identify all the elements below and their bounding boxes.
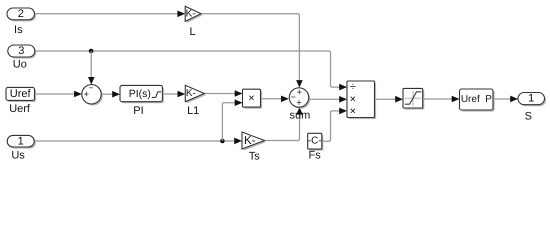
- Uref P block: [460, 89, 495, 112]
- svg-text:Fs: Fs: [308, 150, 321, 162]
- svg-text:÷: ÷: [350, 81, 356, 93]
- svg-text:K-: K-: [244, 135, 256, 147]
- svg-text:1: 1: [528, 93, 534, 105]
- svg-text:K-: K-: [186, 8, 196, 19]
- inport 3 (Uo): [8, 45, 37, 59]
- svg-text:L1: L1: [187, 105, 199, 117]
- svg-text:−: −: [291, 92, 296, 102]
- gain L: [185, 6, 202, 23]
- wire sum2 output to product middle input: [309, 96, 347, 103]
- svg-text:3: 3: [18, 45, 24, 57]
- svg-text:1: 1: [18, 135, 24, 147]
- wire gain L1 to multiply top input: [204, 90, 242, 97]
- inport 1 (Us): [7, 135, 36, 148]
- svg-text:2: 2: [18, 8, 24, 20]
- wire gain L output to sum2 top input: [201, 14, 303, 88]
- junction dot on Uo line: [89, 49, 94, 54]
- svg-text:-C-: -C-: [308, 136, 322, 147]
- Uref source block: [6, 87, 36, 102]
- svg-text:PI(s): PI(s): [129, 88, 151, 100]
- svg-text:K-: K-: [186, 88, 196, 99]
- svg-text:PI: PI: [133, 105, 143, 117]
- svg-text:Uo: Uo: [13, 59, 27, 71]
- gain L1: [185, 85, 206, 103]
- svg-text:Uref: Uref: [10, 88, 32, 100]
- wire Us junction up to multiply bottom input: [222, 99, 242, 141]
- wire Uo port to product divide input: [35, 51, 347, 90]
- wire saturation to Uref P block: [423, 96, 460, 103]
- svg-text:sum: sum: [290, 109, 311, 121]
- wire PI block to gain L1: [162, 91, 185, 98]
- svg-text:×: ×: [350, 105, 356, 117]
- wire multiply output to sum2 left input: [261, 96, 289, 103]
- PI(s) controller block: [120, 85, 164, 103]
- inport 2 (Is): [7, 8, 36, 21]
- wire Is port to gain L: [35, 11, 186, 18]
- wire gain Ts output to sum2 bottom input: [265, 107, 303, 140]
- svg-text:−: −: [89, 83, 94, 92]
- multiply block: [243, 89, 263, 109]
- svg-text:Us: Us: [11, 150, 25, 162]
- svg-text:Uerf: Uerf: [9, 103, 31, 115]
- gain Ts: [242, 132, 266, 151]
- wire Us port to gain Ts: [34, 138, 242, 145]
- product block (divide): [347, 81, 376, 119]
- wire Uref P block to outport S: [493, 96, 518, 103]
- svg-text:+: +: [297, 87, 302, 97]
- wire sum1 output to PI block: [101, 91, 120, 98]
- svg-text:S: S: [525, 110, 532, 122]
- wire product output to saturation: [375, 96, 404, 103]
- svg-text:+: +: [296, 98, 301, 108]
- svg-text:Uref P: Uref P: [461, 94, 492, 105]
- svg-text:×: ×: [350, 93, 356, 105]
- saturation block: [403, 88, 424, 109]
- wire Uo junction down to sum1 top input: [88, 51, 95, 85]
- sum junction sum2: [289, 87, 310, 109]
- wire Uref block to sum1 left input: [35, 91, 82, 98]
- sum junction sum1: [82, 83, 103, 105]
- svg-text:Ts: Ts: [249, 151, 261, 163]
- outport 1 (S): [518, 93, 546, 107]
- svg-text:L: L: [190, 26, 196, 38]
- constant Fs (-C-): [308, 133, 324, 150]
- wire Fs constant to product bottom input: [322, 108, 347, 142]
- junction dot on Us line: [220, 139, 225, 144]
- svg-text:×: ×: [248, 92, 254, 104]
- svg-text:Is: Is: [14, 24, 23, 36]
